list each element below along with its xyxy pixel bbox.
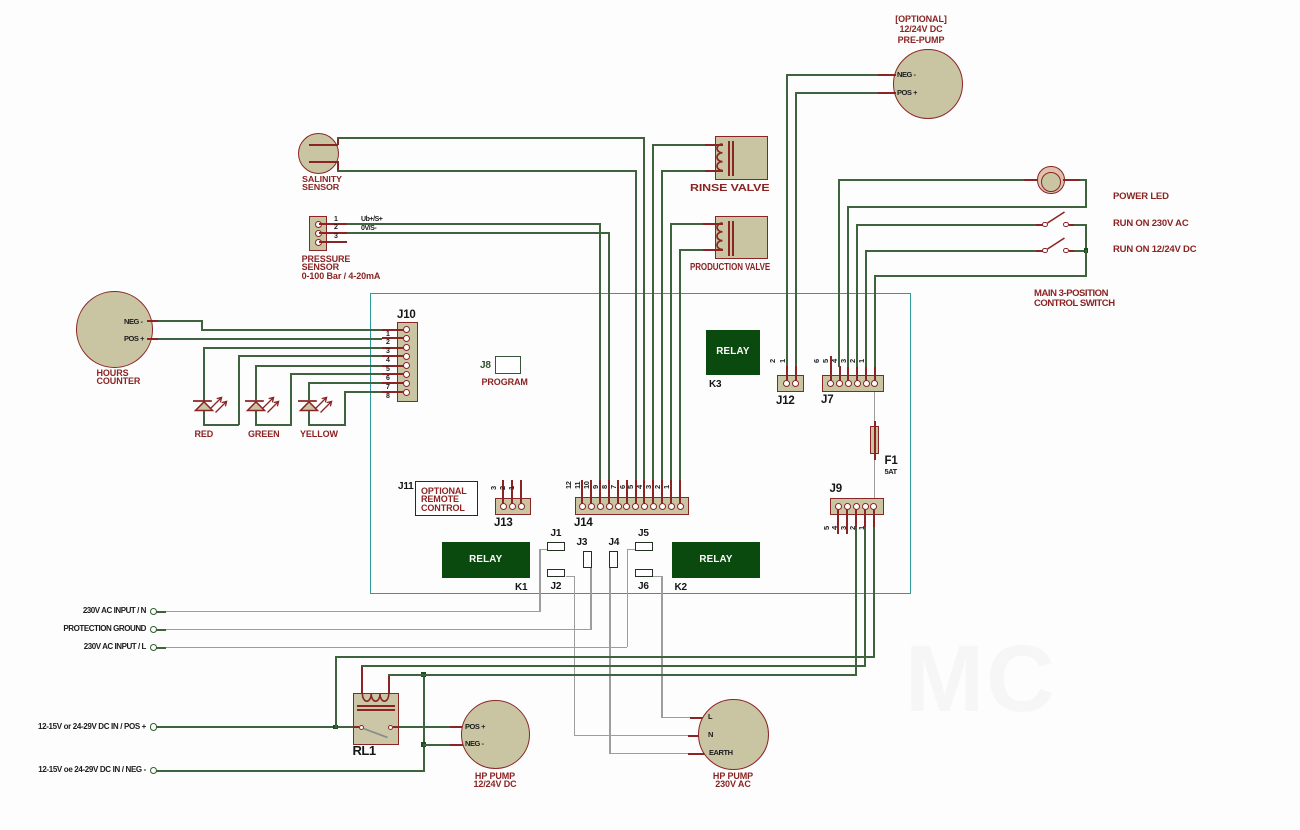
J14 pin number 10 (583, 481, 590, 489)
J10 pin 3 (403, 344, 410, 351)
wire L row horizontal (165, 647, 627, 649)
J10 pin3 stub (382, 347, 404, 349)
J10 pin number 5 (386, 366, 389, 374)
wire J10 pin8 row (344, 391, 382, 393)
rinse valve body (715, 136, 768, 180)
J14 pin7 stub (626, 480, 628, 504)
wire J7 pin5 vertical to power LED row (838, 179, 840, 367)
J14 pin12 stub (581, 480, 583, 504)
rinse valve core bar 2 (732, 141, 734, 176)
net label 0V/S- (361, 225, 376, 233)
J10 pin 7 (403, 380, 410, 387)
wire red LED bottom horizontal (203, 424, 239, 426)
wire production top horizontal (670, 223, 703, 225)
HP pump AC N label (708, 731, 713, 739)
pre-pump NEG pin stub (878, 74, 896, 76)
MAIN 3-POSITION CONTROL SWITCH label (1034, 289, 1115, 308)
connector J9 body (830, 498, 884, 515)
power LED left stub (1024, 179, 1039, 181)
HP pump AC EARTH label (709, 749, 733, 757)
J13 pin 2 (509, 503, 516, 510)
pressure pin number 1 (334, 216, 337, 224)
wire J2 vertical to pump N (574, 576, 576, 737)
fuse F1 element line (874, 427, 876, 453)
J10 pin4 stub (382, 355, 404, 357)
12-15V DC IN POS label (0, 723, 146, 731)
PCB board outline (teal box) (370, 293, 911, 594)
J14 pin number 6 (619, 485, 626, 489)
HP pump DC NEG label (465, 740, 484, 748)
RL1 switch left contact (359, 725, 364, 730)
J9 pin3 stub (855, 509, 857, 527)
pre-pump label (873, 14, 969, 45)
RL1 switch right contact (388, 725, 393, 730)
salinity bottom pin riser (337, 161, 339, 171)
J7 pin number 3 (840, 359, 847, 363)
wire production bottom horizontal (679, 249, 703, 251)
J7 pin 4 (845, 380, 852, 387)
J9 pin5 stub (dangling) (837, 509, 839, 534)
wire red LED cathode vertical (203, 411, 205, 427)
J7 pin 6 (827, 380, 834, 387)
wire pump L horizontal (661, 717, 690, 719)
salinity electrode bottom (309, 161, 338, 163)
production valve core bar 1 (728, 221, 730, 256)
wire counter NEG step vertical (201, 320, 203, 329)
F1 value 5AT (885, 468, 897, 476)
RL1 switch right lead (393, 726, 399, 728)
wire J2 right hook horizontal (566, 576, 575, 578)
wire RL1 coil left vertical (red) (361, 665, 363, 698)
wire DC POS row from terminal (156, 726, 353, 728)
wire POS branch vertical up (335, 656, 337, 728)
J4 ref label (609, 538, 620, 548)
connector J8 body (495, 356, 521, 374)
J9 pin4 stub (dangling) (846, 509, 848, 534)
J10 pin2 stub (382, 337, 404, 339)
wire J9 pin1 vertical down (873, 527, 875, 656)
RUN ON 12/24V DC label (1113, 246, 1196, 255)
J10 pin number 4 (386, 357, 389, 365)
pump EARTH stub (688, 753, 706, 755)
J10 pin7 stub (382, 382, 404, 384)
wire power LED right to corner (1080, 179, 1087, 181)
salinity sensor body (298, 133, 339, 174)
wire production top vertical to J14 pin2 (670, 223, 672, 480)
GREEN label (248, 430, 280, 439)
pre-pump pin label POS (897, 89, 917, 97)
hours counter body (76, 291, 153, 368)
K1 ref label (515, 583, 527, 593)
salinity electrode top (309, 144, 338, 146)
wire yellow LED bottom horizontal (308, 424, 345, 426)
wire ground row horizontal (165, 629, 592, 631)
LED YELLOW symbol (295, 392, 337, 414)
wire switch1 right to corner (1074, 224, 1087, 226)
power LED inner circle (1041, 172, 1061, 192)
production valve core bar 2 (732, 221, 734, 256)
J9 pin number 5 (823, 526, 830, 530)
J9 ref label (830, 484, 842, 494)
J13 ref label (494, 518, 513, 528)
fuse F1 wire lower (gray) (874, 460, 876, 498)
pump POS stub (450, 726, 463, 728)
YELLOW label (300, 430, 338, 439)
wire power LED row horizontal (838, 179, 1026, 181)
PRESSURE SENSOR label (302, 255, 381, 281)
J10 pin number 6 (386, 375, 389, 383)
wire pump EARTH horizontal (609, 753, 688, 755)
J10 pin1 stub (382, 329, 404, 331)
J7 pin2 stub (865, 366, 867, 382)
RL1 switch left lead (353, 726, 359, 728)
HOURS COUNTER label (97, 369, 141, 386)
pressure sensor connector body (309, 216, 327, 252)
RED label (195, 430, 214, 439)
connector J7 body (822, 375, 885, 393)
J14 pin 4 (650, 503, 657, 510)
J10 pin 1 (403, 326, 410, 333)
HP PUMP 230V AC label (697, 772, 769, 789)
wire switch2 right to column (1074, 250, 1087, 252)
fuse F1 red lead (874, 421, 876, 460)
wire pressure pin2 horizontal (347, 232, 610, 234)
J9 pin 1 (870, 503, 877, 510)
pre-pump POS pin stub (878, 92, 896, 94)
wire green LED cathode vertical (255, 411, 257, 427)
wire green LED return vertical (290, 373, 292, 426)
wire J3 vertical to ground row (590, 568, 592, 629)
production valve coil (714, 220, 726, 256)
switch2 right contact (1063, 248, 1069, 254)
wire power LED return vertical (1085, 179, 1087, 207)
J12 ref label (776, 396, 795, 406)
wire switch2 row horizontal (865, 250, 1039, 252)
J6 ref label (638, 582, 649, 592)
230V AC INPUT / L label (0, 643, 146, 651)
J14 pin6 stub (635, 480, 637, 504)
switch1 blade (1045, 209, 1067, 226)
wire J9 pin2 feed row horizontal (361, 665, 866, 667)
hours counter POS stub (147, 338, 158, 340)
J7 pin number 1 (858, 359, 865, 363)
wire J1 vertical to N row (539, 549, 541, 612)
J11 OPTIONAL REMOTE CONTROL text (421, 487, 467, 513)
RL1 core line 2 (357, 709, 395, 711)
J9 pin2 stub (864, 509, 866, 527)
production valve body (715, 216, 768, 260)
faint background watermark (905, 625, 1195, 745)
J9 pin 2 (862, 503, 869, 510)
connector J13 body (495, 498, 531, 516)
RUN ON 230V AC label (1113, 220, 1189, 229)
relay K1 body (442, 542, 531, 579)
J7 pin 1 (871, 380, 878, 387)
terminal 12-15V NEG (150, 767, 158, 775)
wire red LED return vertical (238, 355, 240, 425)
J7 pin 5 (836, 380, 843, 387)
J14 pin9 stub (608, 480, 610, 504)
hours counter NEG stub (147, 320, 158, 322)
K2 ref label (675, 583, 687, 593)
J12 pin 2 (783, 380, 790, 387)
wire power LED return horizontal (847, 206, 1087, 208)
wire RL1 coil right vertical (red) (388, 674, 390, 699)
pressure pin number 2 (334, 224, 337, 232)
wire J6 right hook horizontal (653, 576, 662, 578)
hours counter POS label (124, 335, 144, 343)
SALINITY SENSOR label (302, 176, 342, 192)
jumper J1 body (547, 542, 565, 551)
J11 optional remote control box (415, 481, 478, 516)
wire pressure pin1 horizontal (347, 223, 601, 225)
wire pre-pump NEG horizontal (786, 74, 878, 76)
wire J4 vertical to pump EARTH (609, 568, 611, 753)
wire J5 left hook horizontal (627, 549, 635, 551)
J1 ref label (551, 529, 562, 539)
wire green LED bottom horizontal (255, 424, 291, 426)
wire pump N horizontal (574, 735, 688, 737)
wire rinse bottom vertical to J14 pin3 (661, 170, 663, 480)
J14 pin number 11 (574, 482, 581, 489)
wire switch column vertical upper (1085, 224, 1087, 251)
terminal N stub (156, 611, 166, 613)
LED RED symbol (190, 392, 232, 414)
J7 ref label (821, 395, 833, 405)
J9 pin 4 (844, 503, 851, 510)
terminal 230V AC INPUT / L (150, 644, 158, 652)
wire J10 pin6 row (290, 373, 383, 375)
J13 pin3 stub (502, 480, 504, 504)
J9 pin 5 (835, 503, 842, 510)
J14 pin 3 (659, 503, 666, 510)
wire pre-pump NEG vertical to J12 pin2 (786, 74, 788, 368)
J14 pin number 1 (663, 485, 670, 489)
pressure pin 3 (315, 239, 322, 246)
HP pump AC L label (708, 713, 712, 721)
J7 pin number 2 (849, 359, 856, 363)
switch1 left contact (1042, 222, 1048, 228)
wire pump NEG horizontal (423, 744, 451, 746)
J14 pin 9 (606, 503, 613, 510)
wire salinity top horizontal (337, 137, 645, 139)
switch1 right contact (1063, 222, 1069, 228)
J13 pin1 stub (520, 480, 522, 504)
J14 pin number 5 (627, 485, 634, 489)
wire switch common horizontal (874, 275, 1087, 277)
wire salinity top vertical to J14 pin5 (643, 137, 645, 480)
terminal PROTECTION GROUND (150, 626, 158, 634)
terminal ground stub (156, 629, 166, 631)
jumper J5 body (635, 542, 653, 551)
J10 ref label (397, 310, 416, 320)
J7 pin1 stub (874, 366, 876, 382)
fuse F1 wire upper (gray) (874, 392, 876, 421)
switch1 right stub (1069, 224, 1074, 226)
pre-pump pin label NEG (897, 71, 916, 79)
wire J10 pin7 row (308, 382, 382, 384)
wire counter NEG horizontal upper (158, 320, 202, 322)
jumper J4 body (609, 551, 618, 568)
J10 pin number 1 (386, 331, 389, 339)
J7 pin 2 (863, 380, 870, 387)
J9 pin1 stub (873, 509, 875, 527)
wire pressure pin1 vertical to J14 pin10 (599, 223, 601, 480)
J14 pin 7 (623, 503, 630, 510)
K3 ref label (709, 380, 721, 390)
J14 pin10 stub (599, 480, 601, 504)
J7 pin5 stub (839, 366, 841, 382)
J5 ref label (638, 529, 649, 539)
wire yellow LED cathode vertical (308, 411, 310, 427)
jumper J2 body (547, 569, 565, 578)
wire J9 pin2 vertical down (864, 527, 866, 665)
relay K2 body (672, 542, 760, 579)
wire J7 pin3 vertical to switch1 row (856, 224, 858, 368)
wire J9 pin3 feed row horizontal (388, 674, 857, 676)
J14 pin number 8 (601, 485, 608, 489)
J10 pin number 2 (386, 339, 389, 347)
switch1 left stub (1036, 224, 1043, 226)
wire rinse top horizontal (652, 144, 705, 146)
junction dot NEG at coil return row (421, 672, 426, 677)
J12 pin 1 (792, 380, 799, 387)
J10 pin6 stub (382, 373, 404, 375)
wire J9 pin1 feed row horizontal (335, 656, 875, 658)
J12 pin1 stub (795, 366, 797, 382)
LED GREEN symbol (242, 392, 284, 414)
J14 pin number 2 (654, 485, 661, 489)
J14 pin3 stub (661, 480, 663, 504)
J12 pin number 1 (779, 359, 786, 363)
J14 ref label (574, 518, 593, 528)
wire RL1 output to pump POS (399, 726, 450, 728)
wire pre-pump POS vertical to J12 pin1 (795, 92, 797, 368)
wire switch column vertical lower (1085, 250, 1087, 276)
J14 pin number 12 (565, 481, 572, 489)
switch2 left stub (1036, 250, 1043, 252)
pressure pin 1 (315, 221, 322, 228)
pressure pin1 stub (319, 223, 347, 225)
J10 pin number 7 (386, 384, 389, 392)
J10 pin 2 (403, 335, 410, 342)
J8 ref label (480, 361, 491, 371)
net label Ub+/S+ (361, 216, 382, 224)
J7 pin number 4 (831, 359, 838, 363)
J9 pin 3 (853, 503, 860, 510)
HP PUMP 12/24V DC label (459, 772, 531, 789)
POWER LED label (1113, 193, 1169, 202)
relay RL1 body (353, 693, 399, 745)
J9 pin number 4 (831, 526, 838, 530)
PROGRAM label (482, 378, 528, 387)
J14 pin5 stub (643, 480, 645, 504)
J14 pin number 3 (645, 485, 652, 489)
wire J7 pin4 vertical to LED return row (847, 206, 849, 368)
J9 pin number 1 (858, 526, 865, 530)
RL1 switch blade (362, 726, 390, 740)
wire J9 pin3 vertical down (855, 527, 857, 674)
J12 pin2 stub (786, 366, 788, 382)
J7 pin3 stub (856, 366, 858, 382)
HP pump AC body (698, 699, 769, 770)
rinse valve top stub (705, 144, 723, 146)
pressure pin3 stub (dangling) (319, 241, 347, 243)
wire counter POS horizontal to J10 pin2 (158, 338, 382, 340)
hours counter NEG label (124, 318, 143, 326)
wire red LED anode vertical (203, 347, 205, 401)
switch2 blade (1045, 235, 1067, 252)
connector J10 body (397, 322, 418, 403)
junction dot NEG at pump row (421, 742, 426, 747)
rinse valve core bar 1 (728, 141, 730, 176)
wire pressure pin2 vertical to J14 pin9 (608, 232, 610, 480)
power LED right stub (1063, 179, 1080, 181)
J13 pin2 stub (511, 480, 513, 504)
J10 pin number 8 (386, 393, 389, 401)
J14 pin 10 (597, 503, 604, 510)
wire J1 left hook horizontal (539, 549, 547, 551)
pressure pin 2 (315, 230, 322, 237)
pump L stub (690, 717, 703, 719)
junction dot switch column (1084, 248, 1089, 253)
12-15V DC IN NEG label (0, 766, 146, 774)
J14 pin 1 (677, 503, 684, 510)
wire J6 vertical to pump L (661, 576, 663, 718)
wire N row horizontal (165, 611, 541, 613)
pump NEG stub (450, 744, 463, 746)
J10 pin8 stub (382, 391, 404, 393)
230V AC INPUT / N label (0, 607, 146, 615)
wire pre-pump POS horizontal (795, 92, 878, 94)
HP pump DC body (461, 700, 530, 769)
fuse F1 body (870, 426, 880, 454)
pressure pin number 3 (334, 233, 337, 241)
J13 pin number 1 (508, 486, 515, 490)
J10 pin5 stub (382, 365, 404, 367)
wire salinity bottom horizontal (337, 170, 636, 172)
terminal 12-15V POS (150, 723, 158, 731)
F1 ref label (885, 456, 898, 466)
pressure pin2 stub (319, 232, 347, 234)
salinity top pin riser (337, 137, 339, 145)
wire J10 pin4 row (238, 355, 382, 357)
wire counter NEG horizontal to J10 pin1 (201, 329, 383, 331)
J14 pin4 stub (652, 480, 654, 504)
wire yellow LED return vertical (344, 391, 346, 427)
J14 pin number 4 (636, 485, 643, 489)
J14 pin8 stub (617, 480, 619, 504)
rinse valve bottom stub (705, 170, 723, 172)
RL1 coil arcs (358, 693, 394, 707)
wire J5 vertical to L row (627, 549, 629, 648)
connector J12 body (777, 375, 804, 393)
J13 pin number 2 (499, 486, 506, 490)
J7 pin4 stub (847, 366, 849, 382)
power LED outer circle (1037, 166, 1065, 194)
junction dot POS branch (333, 725, 338, 730)
wire NEG vertical riser (423, 674, 425, 772)
J10 pin 6 (403, 371, 410, 378)
J11 ref label (398, 482, 414, 492)
wire DC NEG row from terminal (156, 770, 424, 772)
J10 pin 5 (403, 362, 410, 369)
J14 pin number 9 (592, 485, 599, 489)
wire J10 pin5 row (255, 365, 382, 367)
J7 pin number 5 (822, 359, 829, 363)
wire J7 pin2 vertical to switch2 row (865, 250, 867, 368)
jumper J6 body (635, 569, 653, 578)
